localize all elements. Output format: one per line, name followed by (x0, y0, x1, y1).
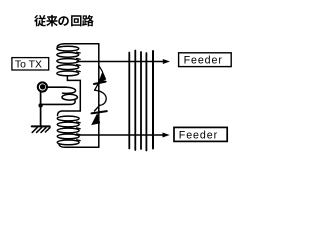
wire secondary bottom to diode column (59, 145, 99, 148)
arrow head bottom (163, 133, 170, 138)
label box Feeder top (179, 53, 232, 67)
balanced feeder line 4 (145, 53, 147, 151)
svg-text:To TX: To TX (15, 59, 42, 70)
link coil L1 primary (62, 87, 77, 104)
diode D2 (points up) (92, 114, 100, 125)
coil L2 upper half (secondary) (57, 44, 99, 76)
svg-text:Feeder: Feeder (184, 55, 223, 67)
coax connector J1 (38, 82, 47, 91)
balanced feeder line 1 (128, 53, 130, 149)
diode column vertical wire (98, 44, 100, 148)
wire connector down to ground (40, 92, 42, 127)
balanced feeder line 2 (134, 51, 136, 151)
balanced feeder line 5 (152, 51, 154, 149)
crossover loop between diodes (95, 84, 98, 90)
feeder wire top (77, 61, 163, 63)
junction dot (38, 103, 42, 107)
wire connector to link coil top (47, 86, 66, 88)
title 従来の回路 (34, 15, 93, 27)
diode D1 lead (99, 66, 102, 72)
label box Feeder bottom (174, 127, 227, 141)
arrow head top (163, 59, 170, 64)
wire junction to link coil bottom (41, 103, 70, 105)
diode D1 cathode bar (94, 82, 106, 84)
feeder wire bottom (76, 134, 162, 136)
svg-text:Feeder: Feeder (179, 130, 218, 142)
diode D1 (points down) (98, 72, 105, 84)
coil L2 lower half (secondary) (57, 116, 80, 145)
wire secondary interconnect (57, 76, 80, 116)
label box To TX (12, 58, 49, 71)
balanced feeder line 3 (140, 52, 142, 149)
diode D2 cathode bar (92, 111, 107, 113)
ground (32, 126, 50, 132)
